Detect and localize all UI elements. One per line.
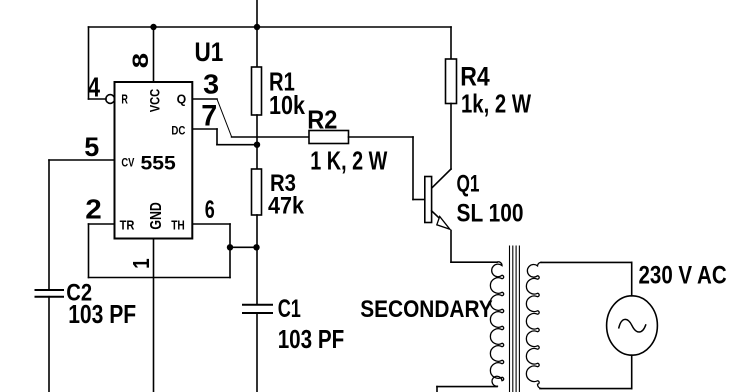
svg-text:TH: TH	[171, 218, 185, 233]
svg-text:TR: TR	[120, 218, 135, 233]
transformer right winding	[526, 262, 541, 388]
transformer left winding	[490, 262, 503, 386]
wire primary return down bottom edge	[436, 387, 438, 392]
wire TR loop bottom horizontal	[89, 277, 231, 279]
wire emitter to primary winding top	[451, 261, 497, 263]
svg-text:VCC: VCC	[146, 89, 162, 113]
svg-text:CV: CV	[121, 156, 134, 170]
svg-text:GND: GND	[148, 202, 165, 229]
svg-text:555: 555	[141, 154, 177, 175]
wire rail corner down to R4	[450, 27, 452, 59]
svg-text:47k: 47k	[268, 193, 305, 220]
svg-text:1 K, 2 W: 1 K, 2 W	[310, 145, 387, 175]
svg-text:C1: C1	[278, 295, 301, 323]
svg-text:1: 1	[128, 258, 155, 269]
wire TR loop down	[88, 224, 90, 278]
svg-text:Q: Q	[177, 92, 187, 107]
wire pin 7 down	[216, 129, 218, 145]
svg-text:1k, 2 W: 1k, 2 W	[461, 89, 531, 119]
svg-text:103 PF: 103 PF	[278, 324, 345, 354]
svg-text:R4: R4	[460, 62, 490, 92]
wire source bottom to secondary bottom	[540, 388, 632, 390]
wire R1 bottom to R3 top	[256, 115, 258, 169]
wire pin 2 TR stub left	[89, 223, 115, 225]
wire R3 bottom to junction	[256, 215, 258, 247]
svg-text:5: 5	[84, 132, 99, 162]
transformer core lines	[509, 246, 511, 392]
wire pin 5 CV to left	[49, 159, 115, 161]
wire pin 3 diagonal	[217, 99, 232, 137]
pin 4 inversion bubble	[106, 95, 115, 104]
wire pin 8 VCC stub	[153, 27, 155, 82]
wire pin 4 reset into bubble	[89, 98, 107, 100]
capacitor C1 plates	[243, 304, 272, 306]
AC source V1 circle	[607, 296, 658, 355]
resistor R4 body	[446, 59, 457, 104]
wire C1 bottom to bottom edge	[256, 313, 258, 392]
node junction dot pin7 to R1/R3	[254, 142, 260, 148]
wire pin 1 GND stub down to bottom edge	[153, 239, 155, 392]
wire primary bottom to left	[437, 386, 497, 388]
svg-text:6: 6	[205, 196, 215, 224]
svg-text:10k: 10k	[269, 90, 305, 120]
svg-text:SECONDARY: SECONDARY	[360, 296, 493, 323]
wire emitter down	[450, 231, 452, 263]
node junction dot at TH link on main vertical	[253, 244, 259, 250]
svg-text:7: 7	[201, 99, 217, 132]
wire left vertical from rail to pin 4	[88, 27, 90, 99]
svg-text:4: 4	[88, 71, 101, 102]
resistor R3 body	[252, 169, 262, 215]
wire TH/TR vertical riser	[229, 224, 231, 278]
transistor Q1 collector diagonal	[431, 169, 451, 189]
node junction dot on rail at x257	[254, 24, 260, 30]
svg-text:R2: R2	[307, 105, 337, 135]
svg-text:230 V AC: 230 V AC	[639, 262, 727, 290]
wire pin 7 to junction	[217, 144, 257, 146]
svg-text:U1: U1	[195, 37, 224, 67]
wire R4 bottom to collector	[450, 104, 452, 170]
node junction dot on rail at VCC stub	[150, 24, 156, 30]
wire main vertical from top edge to R1	[256, 0, 258, 67]
resistor R2 body	[309, 131, 349, 144]
capacitor C2 plates	[36, 289, 64, 291]
transistor Q1 emitter diagonal	[432, 211, 444, 223]
svg-text:8: 8	[129, 53, 154, 68]
wire down to source top	[631, 262, 633, 295]
transistor Q1 base bar	[425, 177, 432, 223]
node junction dot TH riser	[227, 244, 233, 250]
transistor Q1 emitter arrowhead	[437, 217, 450, 230]
svg-text:SL 100: SL 100	[457, 200, 524, 228]
wire CV branch down to C2	[48, 160, 50, 290]
wire pin 7 discharge stub	[192, 128, 217, 130]
svg-text:2: 2	[85, 194, 102, 225]
svg-text:3: 3	[203, 68, 219, 99]
svg-text:103 PF: 103 PF	[68, 299, 136, 329]
IC U1 555 timer body	[115, 82, 193, 239]
wire R2 to base corner	[349, 136, 414, 138]
wire source bottom down	[631, 355, 633, 388]
wire pin 3 output stub	[192, 98, 217, 100]
wire into base bar	[413, 199, 424, 201]
wire base vertical drop	[412, 137, 414, 200]
svg-text:Q1: Q1	[457, 171, 480, 198]
wire C2 bottom to bottom edge	[48, 297, 50, 392]
wire junction to C1 top	[256, 247, 258, 304]
wire pin 3 horizontal to R2	[232, 136, 309, 138]
wire top supply rail	[89, 26, 452, 28]
wire pin 6 TH stub	[192, 223, 230, 225]
wire secondary top to source	[541, 261, 632, 263]
resistor R1 body	[252, 67, 262, 115]
AC source sine symbol	[619, 319, 646, 332]
svg-text:DC: DC	[171, 124, 185, 138]
svg-text:R: R	[121, 91, 128, 106]
wire link junction to main vertical	[230, 246, 257, 248]
